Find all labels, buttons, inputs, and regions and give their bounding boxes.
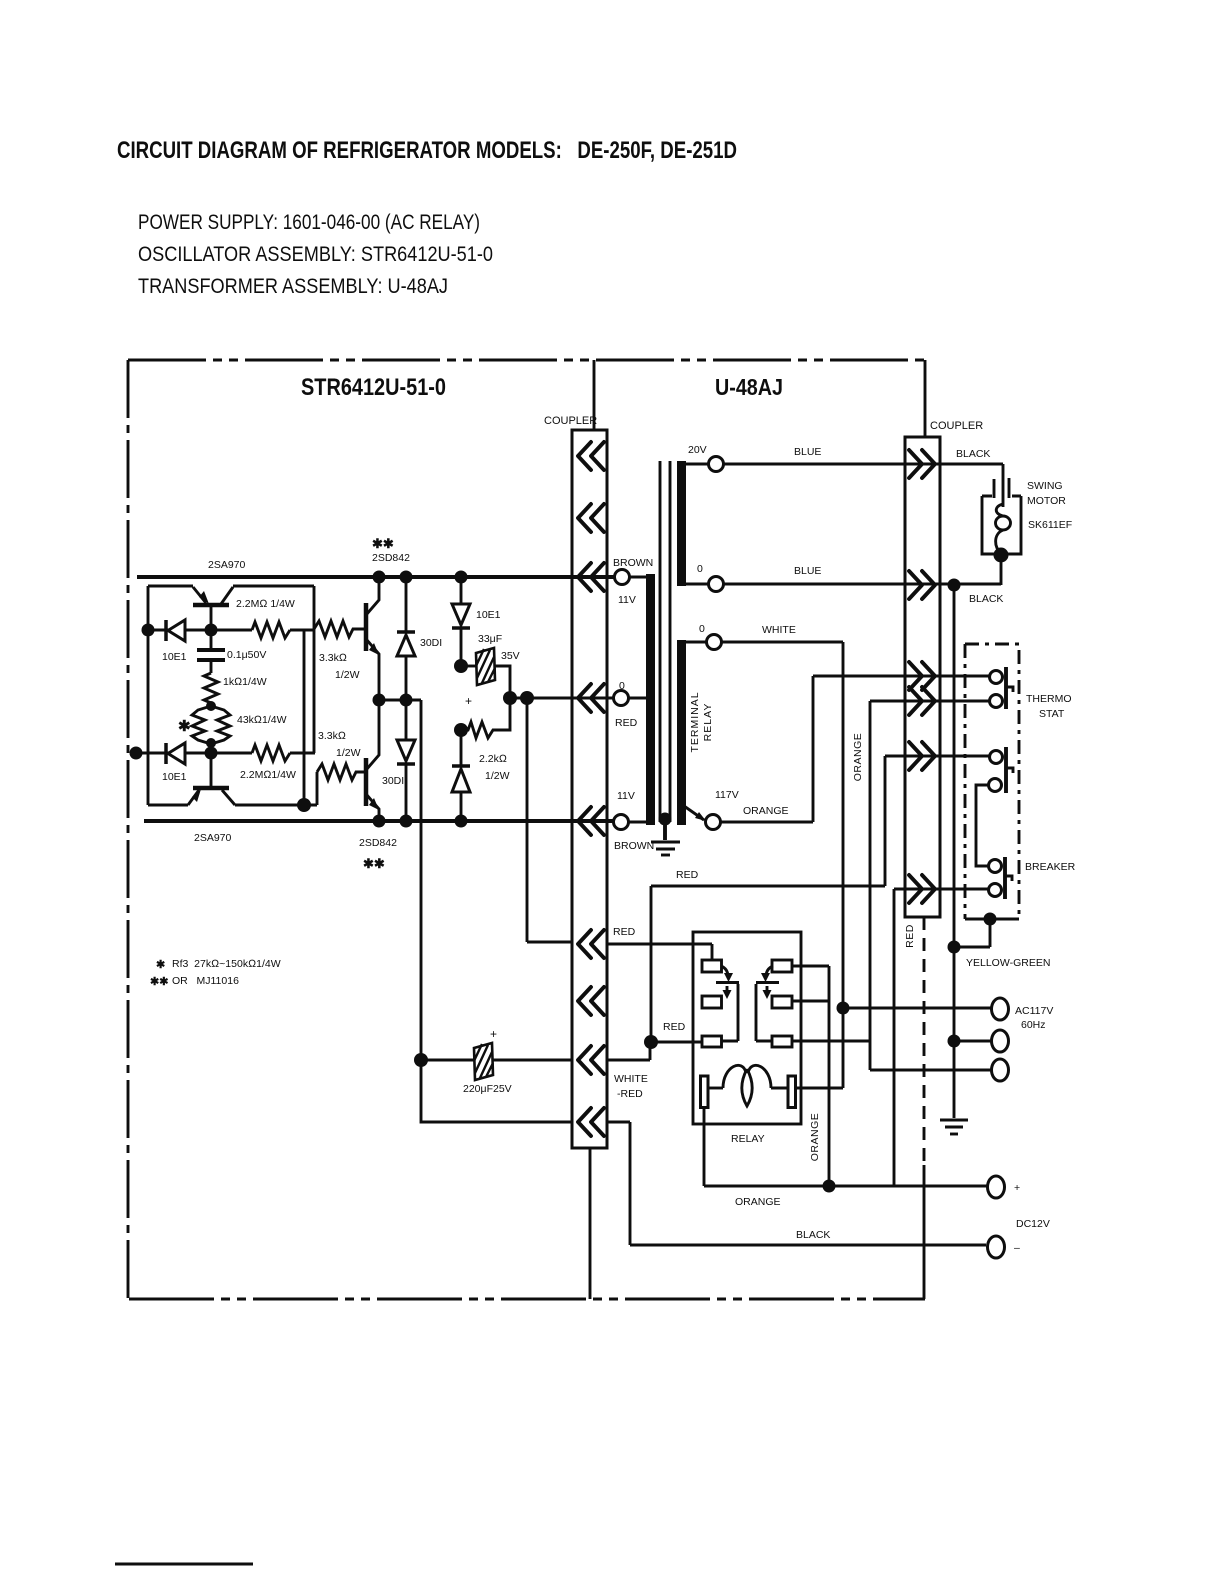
terminal AC117V 1 <box>992 998 1009 1020</box>
wire thermostat bottom return <box>870 700 989 703</box>
node dot C2/R7 junction <box>503 691 517 705</box>
terminal AC117V 2 <box>992 1030 1009 1052</box>
svg-text:WHITE: WHITE <box>614 1073 648 1085</box>
diode D6 (right column bottom) <box>452 766 470 792</box>
relay common bar L <box>722 984 739 1041</box>
capacitor C3 220uF25V <box>421 1043 572 1080</box>
svg-text:RED: RED <box>663 1021 686 1033</box>
wire 2.2M return vertical <box>303 630 306 805</box>
wire 220uF branch to bottom coupler pin <box>421 1060 572 1122</box>
svg-text:30DI: 30DI <box>420 637 442 649</box>
svg-text:2SD842: 2SD842 <box>359 837 397 849</box>
coupler (left) box <box>572 430 607 1148</box>
breaker switch 2 <box>989 860 1002 897</box>
relay contact R2 (mid right) <box>772 996 792 1008</box>
coupler pin chevron BLACK bottom <box>578 1108 604 1136</box>
svg-text:BLACK: BLACK <box>796 1229 830 1241</box>
wire BLACK to DC- <box>607 1122 986 1245</box>
svg-text:RED: RED <box>904 924 916 948</box>
wire BLUE bottom <box>723 583 1001 586</box>
svg-text:+: + <box>1014 1182 1020 1194</box>
svg-text:+: + <box>465 694 472 708</box>
wire breaker U link <box>976 785 989 866</box>
resistor R5 3.3k 1/2W <box>314 621 364 637</box>
wire base row 2 <box>135 752 315 755</box>
top supply rail <box>137 575 615 579</box>
wire thermostat top feed <box>940 675 989 678</box>
wire red vertical to relay row <box>650 886 653 1042</box>
relay contact L3 (bottom left, RED in) <box>702 1036 722 1047</box>
node dot orange junction <box>823 1180 836 1193</box>
coupler pin chevron RED <box>578 930 604 958</box>
wire output node down to 220uF row <box>420 700 423 1060</box>
relay armature arrow R1 <box>766 966 773 977</box>
coupler pin chevron BLUE/BLACK top <box>909 450 935 478</box>
wire AC117V neutral tap <box>948 1035 961 1048</box>
terminal 20V <box>709 457 724 472</box>
coupler pin chevron WHITE-RED <box>578 1046 604 1074</box>
terminal 0 RED (primary mid) <box>614 691 629 706</box>
relay pivot bar R <box>756 981 779 984</box>
wire coil right to white line <box>795 1087 843 1090</box>
node dot 43k top <box>206 701 216 711</box>
svg-text:11V: 11V <box>617 790 635 802</box>
svg-text:BLUE: BLUE <box>794 565 821 577</box>
svg-text:✱: ✱ <box>156 959 165 971</box>
wire contact R1 to orange line <box>792 965 829 968</box>
node dot swing motor bottom <box>994 548 1009 563</box>
terminal 11V BROWN (primary bottom) <box>614 815 629 830</box>
node dot cap branch top <box>454 659 468 673</box>
node dot Q4 emitter on bottom rail <box>373 815 386 828</box>
wire breaker bottom vertical <box>893 889 896 1186</box>
svg-text:3.3kΩ: 3.3kΩ <box>319 652 347 664</box>
relay contact R3 (bottom right) <box>772 1036 792 1047</box>
svg-text:2.2kΩ: 2.2kΩ <box>479 753 507 765</box>
coupler (right) box <box>905 437 940 917</box>
relay armature arrow R2 <box>766 986 769 992</box>
svg-text:✱: ✱ <box>178 718 191 735</box>
relay armature arrow L1 <box>721 966 728 977</box>
diode D5 10E1 (right column) <box>452 604 470 628</box>
wire base row 1 <box>148 629 314 632</box>
resistor R4 2.2M 1/4W <box>252 745 290 761</box>
terminal DC12V - <box>988 1236 1005 1258</box>
resistor R1 2.2M 1/4W <box>252 622 290 638</box>
relay common bar R <box>756 984 772 1041</box>
swing motor coil <box>996 504 1011 553</box>
wire contact R2 to orange line <box>792 1000 829 1003</box>
resistor R3b 43k (parallel pair right) <box>211 706 230 744</box>
svg-text:STAT: STAT <box>1039 708 1065 720</box>
wire RED from coupler to relay <box>607 944 712 960</box>
wire red link to oscillator <box>651 885 885 888</box>
relay pivot bar L <box>716 981 739 984</box>
svg-text:33μF: 33μF <box>478 633 502 645</box>
RIGHT COUPLER CHEVRONS <box>909 450 935 903</box>
resistor R3a 43k (parallel pair left) <box>192 706 211 744</box>
relay coil <box>708 1065 788 1106</box>
svg-text:OSCILLATOR ASSEMBLY: STR6412U-: OSCILLATOR ASSEMBLY: STR6412U-51-0 <box>138 243 493 266</box>
svg-text:WHITE: WHITE <box>762 624 796 636</box>
Q1 emitter arrow <box>199 591 209 604</box>
svg-text:COUPLER: COUPLER <box>930 420 983 432</box>
node dot collector2 join <box>297 798 311 812</box>
transistor Q2 2SA970 bottom PNP <box>148 630 235 805</box>
wire swing motor return <box>1000 554 1003 585</box>
wire neutral vertical <box>953 585 956 1118</box>
svg-text:2.2MΩ 1/4W: 2.2MΩ 1/4W <box>236 598 295 610</box>
title block <box>117 137 737 298</box>
relay contact L2 (mid left) <box>702 996 722 1008</box>
wire collector2 row right segment <box>235 804 317 807</box>
thermostat/breaker dash-dot box <box>965 644 1019 919</box>
svg-text:RED: RED <box>676 869 699 881</box>
svg-text:CIRCUIT DIAGRAM OF REFRIGERATO: CIRCUIT DIAGRAM OF REFRIGERATOR MODELS: … <box>117 137 737 164</box>
node dot output row 30DI <box>400 694 413 707</box>
svg-text:RELAY: RELAY <box>731 1133 765 1145</box>
node dot black/neutral junction <box>948 579 961 592</box>
svg-text:0: 0 <box>619 680 625 692</box>
bottom supply rail <box>144 819 614 823</box>
resistor R6 3.3k 1/2W <box>317 764 364 780</box>
diode D2 10E1 <box>166 743 185 764</box>
svg-text:20V: 20V <box>688 444 707 456</box>
svg-text:60Hz: 60Hz <box>1021 1019 1046 1031</box>
node dot on left border <box>130 747 143 760</box>
wire to coupler 0 RED <box>510 697 614 700</box>
coupler pin chevron 11V BROWN <box>578 807 604 835</box>
relay armature arrow L2 <box>726 986 729 992</box>
wire 3.3k base lead down <box>316 772 319 805</box>
transistor Q4 2SD842 bottom NPN <box>366 700 379 821</box>
svg-text:✱✱: ✱✱ <box>150 976 168 988</box>
svg-text:0: 0 <box>699 623 705 635</box>
node dot 30DI top on top rail <box>400 571 413 584</box>
svg-text:ORANGE: ORANGE <box>735 1196 781 1208</box>
breaker switch 1 <box>989 751 1003 792</box>
wire AC third terminal <box>870 1069 991 1072</box>
terminal BROWN 11V (primary top) <box>615 570 630 585</box>
Q4 emitter arrow <box>369 798 379 810</box>
wire output row <box>379 699 421 702</box>
resistor R2 1k 1/4W vertical <box>204 673 218 705</box>
svg-text:ORANGE: ORANGE <box>809 1113 821 1162</box>
node dot Q3 collector on top rail <box>373 571 386 584</box>
relay coil pin right <box>788 1076 796 1108</box>
wire breaker bottom to coupler <box>894 888 988 891</box>
svg-text:MOTOR: MOTOR <box>1027 495 1066 507</box>
svg-text:DC12V: DC12V <box>1016 1218 1050 1230</box>
svg-text:1/2W: 1/2W <box>485 770 510 782</box>
coupler pin chevron (unused mid) <box>578 987 604 1015</box>
svg-text:SK611EF: SK611EF <box>1028 519 1072 531</box>
svg-text:RED: RED <box>613 926 636 938</box>
wire breaker feed vertical <box>884 756 887 886</box>
svg-text:ORANGE: ORANGE <box>852 733 864 782</box>
wire orange vertical (relay output) <box>828 966 831 1186</box>
svg-text:TRANSFORMER ASSEMBLY: U-48AJ: TRANSFORMER ASSEMBLY: U-48AJ <box>138 275 448 298</box>
transistor Q1 2SA970 top PNP <box>193 586 314 630</box>
wire coupler stub to border bottom <box>589 1148 592 1299</box>
svg-text:0.1μ50V: 0.1μ50V <box>227 649 266 661</box>
coupler pin chevron BROWN 11V <box>578 563 604 591</box>
node dot base Q2 row <box>205 747 218 760</box>
svg-text:2SA970: 2SA970 <box>208 559 246 571</box>
terminal 117V <box>706 815 721 830</box>
capacitor C2 33uF 35V <box>461 648 510 698</box>
svg-text:2.2MΩ1/4W: 2.2MΩ1/4W <box>240 769 296 781</box>
coupler pin chevron thermostat return <box>909 687 935 715</box>
svg-text:10E1: 10E1 <box>476 609 501 621</box>
svg-text:RED: RED <box>615 717 638 729</box>
svg-text:Rf3 27kΩ~150kΩ1/4W: Rf3 27kΩ~150kΩ1/4W <box>172 958 281 970</box>
page artifact line <box>115 1563 253 1566</box>
svg-text:11V: 11V <box>618 594 636 606</box>
svg-text:THERMO: THERMO <box>1026 693 1072 705</box>
capacitor C1 0.1u50V <box>197 630 225 673</box>
terminal DC12V + <box>988 1176 1005 1198</box>
svg-text:117V: 117V <box>715 789 739 801</box>
transistor Q3 2SD842 top NPN <box>366 577 379 700</box>
svg-text:220μF25V: 220μF25V <box>463 1083 512 1095</box>
svg-text:U-48AJ: U-48AJ <box>715 374 783 400</box>
svg-text:OR MJ11016: OR MJ11016 <box>172 975 239 987</box>
coupler pin chevron (unused top 2) <box>578 504 604 532</box>
wire white vertical (transformer 0 to AC/coil) <box>842 642 845 1088</box>
svg-text:POWER SUPPLY: 1601-046-00 (AC: POWER SUPPLY: 1601-046-00 (AC RELAY) <box>138 211 480 234</box>
wire WHITE-RED coupler to red node <box>607 1042 650 1060</box>
ground (AC neutral) <box>940 1119 968 1122</box>
coupler pin chevron (unused top 1) <box>578 442 604 470</box>
node dot base Q1 row <box>142 624 155 637</box>
svg-text:AC117V: AC117V <box>1015 1005 1053 1017</box>
svg-text:10E1: 10E1 <box>162 651 187 663</box>
117V tap switch arm <box>684 806 704 820</box>
svg-text:–: – <box>1014 1242 1020 1254</box>
wire collector feedback right vertical <box>313 586 316 753</box>
node dot 30DI bottom on bottom rail <box>400 815 413 828</box>
Q3 emitter arrow <box>369 643 379 655</box>
coupler pin chevron BLUE/BLACK lower <box>909 571 935 599</box>
secondary winding bar (top 20V-0) <box>677 461 686 586</box>
wire orange feed vertical (thermostat return) <box>869 701 872 1070</box>
yellow-green bond <box>984 913 997 926</box>
diode D1 10E1 <box>166 620 185 641</box>
LEFT COUPLER CHEVRONS <box>578 442 604 1136</box>
svg-text:43kΩ1/4W: 43kΩ1/4W <box>237 714 287 726</box>
svg-text:✱✱: ✱✱ <box>372 536 394 551</box>
svg-text:TERMINAL: TERMINAL <box>689 691 701 752</box>
svg-text:STR6412U-51-0: STR6412U-51-0 <box>301 374 446 401</box>
svg-text:35V: 35V <box>501 650 520 662</box>
primary winding bar <box>646 574 655 825</box>
relay coil pin left <box>701 1076 709 1108</box>
ground (transformer core) <box>659 813 672 826</box>
diode D4 30DI <box>397 740 415 764</box>
svg-text:RELAY: RELAY <box>702 703 714 742</box>
transformer core lines <box>660 461 670 822</box>
terminal AC117V 3 <box>992 1059 1009 1081</box>
wire through left coupler BROWN <box>607 576 615 579</box>
svg-text:BROWN: BROWN <box>614 840 654 852</box>
node dot 43k bottom <box>206 738 216 748</box>
svg-text:0: 0 <box>697 563 703 575</box>
svg-text:BROWN: BROWN <box>613 557 653 569</box>
svg-text:1/2W: 1/2W <box>335 669 360 681</box>
swing motor SM1 box <box>982 478 1021 554</box>
wire WHITE <box>721 641 843 644</box>
svg-text:BLUE: BLUE <box>794 446 821 458</box>
svg-text:✱✱: ✱✱ <box>363 856 385 871</box>
thermostat TH1 <box>990 671 1003 708</box>
node dot 10E1 column on top rail <box>455 571 468 584</box>
Q2 emitter arrow <box>192 789 201 802</box>
svg-text:30DI: 30DI <box>382 775 404 787</box>
coupler pin chevron breaker bottom <box>909 875 935 903</box>
wire breaker feed <box>885 755 989 758</box>
svg-text:1kΩ1/4W: 1kΩ1/4W <box>223 676 267 688</box>
svg-text:SWING: SWING <box>1027 480 1063 492</box>
wire red takeoff down <box>527 698 572 942</box>
wire coil left to DC+ <box>704 1107 987 1186</box>
svg-text:2SA970: 2SA970 <box>194 832 232 844</box>
terminal 0 (secondary top) <box>709 577 724 592</box>
diode D3 30DI <box>397 632 415 656</box>
svg-text:BLACK: BLACK <box>956 448 990 460</box>
wire contact R3 to thermostat line <box>792 1040 870 1043</box>
node dot 220uF row <box>414 1053 428 1067</box>
coupler pin chevron ORANGE 117V <box>909 662 935 690</box>
coupler pin chevron 0 RED <box>578 684 604 712</box>
node dot white/AC117V <box>837 1002 850 1015</box>
svg-text:+: + <box>490 1027 497 1041</box>
svg-text:2SD842: 2SD842 <box>372 552 410 564</box>
relay contact R1 (top right) <box>772 960 792 972</box>
svg-text:BREAKER: BREAKER <box>1025 861 1076 873</box>
svg-text:ORANGE: ORANGE <box>743 805 789 817</box>
node dot R7 branch <box>454 723 468 737</box>
wire ORANGE 117V <box>720 676 940 822</box>
wire emitter rail top <box>148 586 193 630</box>
svg-text:10E1: 10E1 <box>162 771 187 783</box>
svg-text:BLACK: BLACK <box>969 593 1003 605</box>
svg-text:3.3kΩ: 3.3kΩ <box>318 730 346 742</box>
relay box <box>693 932 801 1124</box>
svg-text:YELLOW-GREEN: YELLOW-GREEN <box>966 957 1050 969</box>
outer dash-dot border of STR6412U-51-0 / U-48AJ blocks <box>128 360 926 1299</box>
node dot red takeoff <box>520 691 534 705</box>
node dot output row Q3/Q4 <box>373 694 386 707</box>
secondary winding bar (bottom 0-117V) <box>677 640 686 825</box>
terminal 0 WHITE <box>707 635 722 650</box>
resistor R7 2.2k 1/2W <box>461 700 510 738</box>
node dot diode column on bottom rail <box>455 815 468 828</box>
svg-text:-RED: -RED <box>617 1088 643 1100</box>
svg-text:COUPLER: COUPLER <box>544 415 597 427</box>
wire AC117V hot <box>843 1007 991 1010</box>
svg-text:1/2W: 1/2W <box>336 747 361 759</box>
coupler pin chevron breaker feed <box>909 742 935 770</box>
wire RED into relay <box>651 1041 702 1044</box>
relay contact L1 (top left) <box>702 960 722 972</box>
wire BLUE top <box>723 463 1003 466</box>
